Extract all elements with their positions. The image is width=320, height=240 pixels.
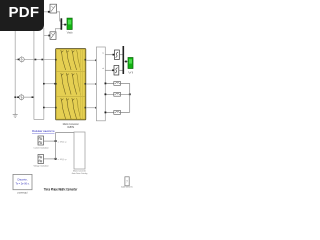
wire phase B vertical <box>33 28 35 120</box>
wire rung 2 with source <box>15 96 34 98</box>
junction dot before B1 <box>48 11 50 13</box>
matrix converter switch glyphs row 1 <box>61 50 81 70</box>
wire load to voltage measurement M1 <box>105 54 114 56</box>
wire input to measurement block B2 <box>44 35 50 37</box>
junction dot before M2 <box>112 69 114 71</box>
svg-text:vb: vb <box>102 68 104 70</box>
wire B2 output to mux <box>55 29 60 32</box>
junction dot branch 1 <box>105 83 107 85</box>
junction dot branch 2 right <box>129 93 131 95</box>
junction dot branch 2 left <box>105 93 107 95</box>
junction dot mux M2 output <box>125 61 127 63</box>
wire rung 1 with source to converter input A <box>15 58 55 60</box>
svg-text:Current modulator: Current modulator <box>34 146 49 149</box>
svg-text:Voltage modulator: Voltage modulator <box>34 165 49 168</box>
junction dot output A <box>95 59 97 61</box>
ac source V2 <box>17 94 24 101</box>
arrow into converter input B <box>54 83 56 85</box>
svg-text:Double Click for Info: Double Click for Info <box>121 186 133 188</box>
wire B1 output to mux <box>57 12 61 21</box>
matrix converter port nubs <box>55 59 86 109</box>
wire modulator 1 output <box>44 140 56 142</box>
junction dot phase C at rung B <box>43 83 45 85</box>
wire input to measurement block B1 <box>44 11 50 13</box>
measurement block B1 <box>50 4 57 13</box>
svg-text:Ts = 2e-06 s.: Ts = 2e-06 s. <box>16 181 30 185</box>
arrow into load B <box>95 83 97 85</box>
svg-text:VI: VI <box>128 71 134 74</box>
RL branch 3 component <box>114 111 121 115</box>
PDF overlay badge <box>0 0 44 31</box>
matrix converter switch glyphs row 2 <box>61 73 81 95</box>
svg-text:a M(t) p: a M(t) p <box>58 140 68 143</box>
wire bottom elbow joining phase B and C <box>34 119 44 121</box>
voltage measurement M1 <box>115 50 120 60</box>
scope Vab <box>67 18 72 29</box>
wire modulator 2 output <box>44 158 56 160</box>
ac source V1 <box>18 56 25 63</box>
junction dot branch 3 <box>105 112 107 114</box>
junction arrow at phase B on rung 1 <box>35 59 37 61</box>
svg-text:IGBTs: IGBTs <box>67 125 75 129</box>
wire mux M2 to scope VI <box>124 61 128 63</box>
RL branch 3 wire <box>105 111 129 113</box>
junction dot before M1 <box>113 54 115 56</box>
modulator block 1 <box>38 136 44 145</box>
load subsystem block <box>96 47 105 121</box>
svg-text:Vab: Vab <box>67 32 74 35</box>
modulator block 2 <box>38 155 44 164</box>
svg-text:Matrix Converter: Matrix Converter <box>73 169 86 172</box>
RL branch 2 component <box>114 92 121 96</box>
svg-text:Modulator waveforms: Modulator waveforms <box>32 129 55 133</box>
wire load to voltage measurement M2 <box>105 69 114 71</box>
gates subsystem block <box>74 132 85 169</box>
svg-text:a M(t) p: a M(t) p <box>58 158 68 161</box>
mux M1 <box>61 18 63 30</box>
mux M2 <box>123 46 125 74</box>
arrow into load A <box>98 60 100 62</box>
matrix converter switch glyphs row 3 <box>61 98 81 119</box>
scope VI <box>128 58 133 69</box>
arrow into phase B rung 2 <box>32 96 34 98</box>
wire M1 to mux M2 <box>119 54 122 56</box>
svg-text:powergui: powergui <box>18 191 28 194</box>
info block <box>125 177 129 186</box>
junction dot phase C at rung C <box>43 107 45 109</box>
matrix converter right column shading <box>80 50 82 119</box>
ground <box>13 113 18 118</box>
junction dot modulator 1 <box>55 140 57 142</box>
matrix converter row dividers <box>57 71 86 96</box>
measurement block B2 <box>50 32 56 40</box>
junction dot before B2 <box>48 35 50 37</box>
junction dot modulator 2 <box>55 158 57 160</box>
junction dot mux M1 output <box>64 24 66 26</box>
svg-text:Three Phase Matrix Converter: Three Phase Matrix Converter <box>44 187 78 192</box>
wire phase C to converter input C <box>44 107 56 109</box>
junction dot phase A rung 2 <box>14 96 16 98</box>
wire converter output B <box>86 83 96 85</box>
matrix converter block U1 <box>56 49 86 120</box>
wire gates bus vertical <box>55 132 57 159</box>
wire M2 to mux M2 <box>119 69 123 71</box>
wire converter output C <box>86 107 96 109</box>
wire phase C to converter input B <box>44 83 56 85</box>
junction arrow at phase C on rung 1 <box>41 59 43 61</box>
wire gates bus horizontal <box>56 131 74 133</box>
RL branch 1 wire <box>105 82 129 84</box>
svg-text:Gate Drive Catalog: Gate Drive Catalog <box>72 172 88 175</box>
wire phase A vertical <box>14 28 16 113</box>
wire converter output A <box>86 59 96 61</box>
wire neutral connector <box>129 83 131 112</box>
powergui block <box>13 174 32 189</box>
RL branch 2 wire <box>105 93 129 95</box>
svg-text:?: ? <box>126 179 128 183</box>
wire mux M1 to scope <box>62 24 67 26</box>
svg-text:va: va <box>102 52 104 54</box>
junction dot output C <box>95 107 97 109</box>
RL branch 1 component <box>114 82 121 86</box>
wire phase C vertical <box>43 28 45 120</box>
voltage measurement M2 <box>114 66 119 76</box>
